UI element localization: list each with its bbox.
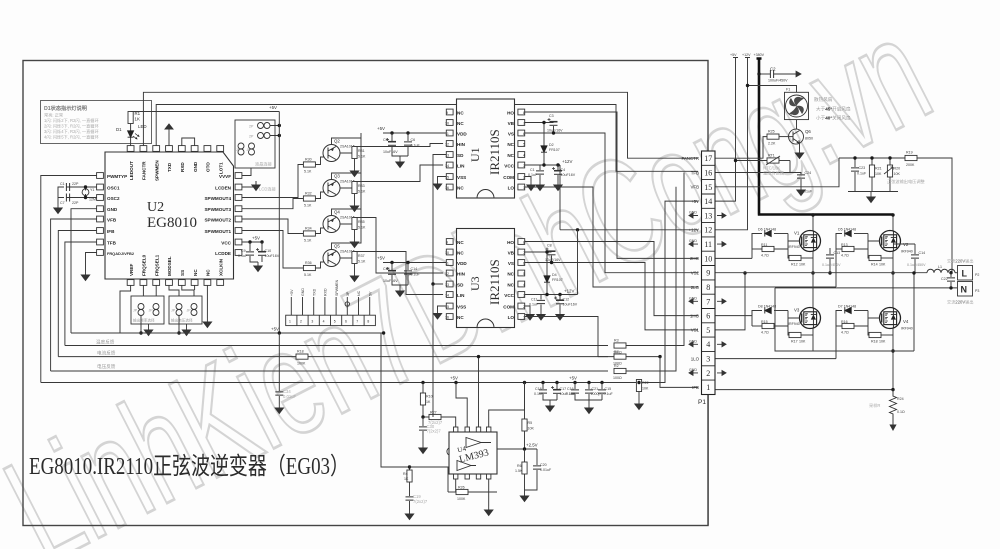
resistor R23 10K — [869, 156, 882, 191]
svg-text:C4: C4 — [561, 168, 566, 172]
svg-text:FR107: FR107 — [549, 148, 560, 152]
svg-text:SS: SS — [180, 270, 185, 276]
svg-text:11: 11 — [445, 132, 449, 136]
svg-text:5V: 5V — [368, 291, 372, 296]
capacitor C5 10uF/16V — [383, 133, 408, 156]
svg-text:JP: JP — [133, 309, 138, 313]
svg-text:+5V: +5V — [290, 289, 294, 296]
svg-text:SD: SD — [457, 153, 464, 158]
svg-text:5.1K: 5.1K — [358, 260, 366, 264]
svg-text:10K: 10K — [875, 172, 882, 176]
svg-text:+5V: +5V — [691, 199, 699, 204]
capacitor C10 10uF/16V — [254, 242, 280, 272]
svg-text:10K: 10K — [528, 427, 535, 431]
svg-text:10uF16V: 10uF16V — [563, 303, 578, 307]
wire SPWMOUT3 to R32 — [242, 199, 304, 209]
thermistor RT1 — [716, 154, 791, 177]
svg-text:8050: 8050 — [805, 137, 813, 141]
svg-text:13: 13 — [704, 211, 712, 220]
svg-text:R17: R17 — [791, 340, 798, 344]
fan note text — [814, 96, 851, 122]
wire SPWMOUT2 to R34 — [242, 219, 304, 234]
wire LM393 outputs — [432, 284, 434, 417]
svg-text:SPWMEN: SPWMEN — [335, 279, 339, 296]
svg-text:4.7Ω: 4.7Ω — [841, 331, 849, 335]
svg-text:3: 3 — [311, 320, 313, 324]
wire SS pin ground — [195, 285, 212, 327]
wire PWMTYP to +5V rail — [41, 176, 97, 383]
svg-text:NC: NC — [457, 315, 464, 320]
svg-text:C3: C3 — [549, 114, 554, 118]
svg-text:C13: C13 — [383, 267, 390, 271]
resistor R26 — [448, 467, 497, 516]
svg-text:R3: R3 — [614, 339, 619, 343]
wire U3 VS to P1 pin5 — [525, 261, 698, 330]
svg-text:Q6: Q6 — [805, 129, 811, 134]
jumper feet to +5V rail — [139, 316, 180, 335]
svg-text:+5V: +5V — [730, 53, 737, 57]
svg-text:V3: V3 — [794, 308, 800, 313]
capacitor C6 0.1uF — [396, 133, 421, 168]
svg-text:NC: NC — [457, 121, 464, 126]
+5V main rail — [41, 201, 698, 382]
svg-text:10K: 10K — [799, 340, 806, 344]
resistor R17 10K — [788, 326, 813, 344]
U2 bottom pins — [127, 254, 223, 285]
svg-text:2HO: 2HO — [690, 256, 700, 261]
TXD stub with up ground — [165, 124, 173, 146]
svg-text:100uF/450V: 100uF/450V — [768, 79, 788, 83]
svg-text:0.1uF: 0.1uF — [529, 303, 539, 307]
bridge gate feed wires — [716, 258, 837, 358]
svg-text:NC: NC — [457, 250, 464, 255]
+5V labels on rail — [421, 376, 577, 385]
svg-text:JP: JP — [149, 309, 154, 313]
capacitor C4 10uF/16V — [552, 165, 576, 191]
svg-text:13: 13 — [445, 283, 449, 287]
resistor R15 4.7 — [752, 311, 800, 335]
svg-text:HO: HO — [507, 240, 514, 245]
svg-text:+5V: +5V — [271, 327, 279, 332]
VS output line — [716, 272, 928, 274]
svg-text:C10: C10 — [265, 249, 272, 253]
svg-text:4.7Ω: 4.7Ω — [761, 254, 769, 258]
svg-text:6: 6 — [345, 320, 347, 324]
svg-text:R15: R15 — [761, 320, 768, 324]
svg-text:10K: 10K — [879, 263, 886, 267]
+5V feed wire over U2 top to LCD box — [131, 105, 280, 112]
resistor R33 — [340, 182, 366, 212]
svg-text:2P: 2P — [249, 135, 254, 139]
svg-text:电流反馈: 电流反馈 — [97, 350, 116, 357]
svg-text:10: 10 — [445, 251, 449, 255]
svg-text:LO: LO — [508, 185, 515, 190]
op-amp U3 IR2110S body — [457, 229, 515, 328]
resistor R18a 10K — [868, 326, 893, 344]
resistor R13 4.7 — [836, 234, 880, 258]
svg-text:OSC2: OSC2 — [107, 196, 120, 201]
output voltage adjust line — [716, 158, 953, 273]
header P4 program connector — [286, 279, 376, 325]
svg-text:C22: C22 — [941, 277, 948, 281]
diode D8 1N4148 — [752, 305, 788, 316]
bootstrap capacitor C3 — [525, 114, 563, 133]
terminal L P2 — [947, 258, 979, 281]
inductor L1 — [927, 265, 958, 273]
svg-text:Q5: Q5 — [334, 244, 340, 249]
comparator U4 LM393 body — [447, 432, 497, 474]
wire U3 VCC +12V node — [525, 289, 578, 297]
svg-text:IRF940: IRF940 — [788, 245, 800, 249]
svg-text:P3: P3 — [975, 289, 979, 293]
svg-text:8: 8 — [523, 240, 525, 244]
svg-text:D1: D1 — [116, 127, 122, 132]
svg-text:D2: D2 — [549, 143, 554, 147]
wire IFB P1 pin1 to current line — [660, 357, 698, 388]
svg-text:C7: C7 — [60, 201, 65, 205]
resistor R11 4.7 — [752, 234, 800, 258]
title text — [29, 453, 349, 480]
svg-text:+380V: +380V — [754, 53, 765, 57]
svg-text:NC: NC — [193, 269, 198, 276]
resistor R3 — [613, 173, 684, 355]
V3 drain — [812, 273, 814, 308]
svg-text:U1: U1 — [468, 147, 482, 162]
capacitor C30 — [419, 417, 442, 454]
svg-text:SPWMOUT4: SPWMOUT4 — [204, 196, 231, 201]
svg-text:10: 10 — [445, 121, 449, 125]
svg-text:+5V: +5V — [569, 376, 577, 381]
op-amp U1 IR2110S body — [457, 99, 515, 198]
svg-text:0.1Ω: 0.1Ω — [897, 410, 905, 414]
svg-text:8: 8 — [706, 283, 710, 292]
svg-text:TXD: TXD — [312, 288, 316, 296]
svg-text:0.1uF: 0.1uF — [534, 392, 544, 396]
capacitor C7 22P — [60, 194, 79, 206]
U1 +5V and caps C5 C6 — [377, 126, 446, 135]
svg-text:IRF940: IRF940 — [901, 327, 913, 331]
svg-text:NC: NC — [507, 271, 514, 276]
svg-text:HIN: HIN — [457, 271, 466, 276]
resistor R7 — [613, 350, 662, 366]
MOSFET V3 IRF940 — [788, 308, 821, 329]
svg-text:交流220V输出: 交流220V输出 — [947, 258, 974, 265]
resistor R37 — [340, 252, 366, 282]
svg-text:输出电压选择: 输出电压选择 — [171, 318, 193, 323]
wire Q4 emitter — [332, 173, 362, 216]
U1 left pins — [445, 109, 467, 190]
svg-text:EG8010.IR2110正弦波逆变器（EG03）: EG8010.IR2110正弦波逆变器（EG03） — [29, 453, 349, 480]
V2 drain to bus — [891, 213, 894, 230]
svg-text:16: 16 — [704, 168, 712, 177]
V4 source down — [891, 329, 894, 390]
svg-text:C16: C16 — [567, 387, 574, 391]
resistor R18 — [296, 350, 608, 366]
svg-text:10uF16V: 10uF16V — [561, 173, 576, 177]
svg-text:R19: R19 — [906, 151, 913, 155]
svg-text:P1: P1 — [698, 399, 706, 406]
svg-text:SPWMOUT3: SPWMOUT3 — [204, 207, 231, 212]
wire Q3 emitter — [332, 138, 362, 180]
capacitor C21 1000p — [585, 383, 601, 401]
svg-text:HO: HO — [507, 110, 514, 115]
svg-text:RT1: RT1 — [768, 154, 775, 158]
svg-text:+2.5V: +2.5V — [526, 443, 538, 448]
svg-text:GND: GND — [689, 339, 697, 343]
svg-text:Y1: Y1 — [90, 188, 94, 192]
svg-text:D4: D4 — [552, 273, 557, 277]
resistor R6 — [515, 449, 527, 490]
svg-text:R36: R36 — [305, 261, 312, 265]
wire VREF pin down — [120, 285, 131, 333]
svg-text:1K: 1K — [135, 117, 140, 122]
wires LCD box to +5V vertical — [270, 112, 281, 334]
svg-text:R16: R16 — [841, 320, 848, 324]
svg-text:C1: C1 — [60, 182, 65, 186]
RXD stub — [182, 138, 195, 146]
svg-text:VCC: VCC — [504, 163, 514, 168]
svg-text:1: 1 — [523, 186, 525, 190]
svg-text:1: 1 — [289, 320, 291, 324]
svg-text:10uF16V: 10uF16V — [383, 150, 398, 154]
svg-text:GND: GND — [689, 239, 697, 243]
wire U3 LO to P1 pin3 — [525, 317, 614, 357]
svg-text:R2: R2 — [614, 364, 619, 368]
svg-text:2: 2 — [523, 305, 525, 309]
crystal Y1 12M — [66, 185, 97, 201]
svg-text:R13: R13 — [841, 243, 848, 247]
diode D5 1N4148 — [836, 228, 868, 288]
node +5V supply — [716, 53, 739, 201]
svg-text:COM: COM — [503, 175, 514, 180]
svg-text:FANCTR: FANCTR — [681, 156, 699, 161]
capacitor C18 0.1uF — [534, 383, 557, 401]
svg-text:12: 12 — [704, 226, 712, 235]
svg-text:R26: R26 — [458, 486, 465, 490]
svg-text:10K: 10K — [642, 387, 649, 391]
svg-text:D5 1N4148: D5 1N4148 — [838, 228, 856, 232]
svg-text:8: 8 — [523, 111, 525, 115]
wire SPWMOUT4 to R30 — [242, 165, 304, 198]
+5V jumper rail — [71, 327, 385, 335]
svg-text:14: 14 — [704, 197, 712, 206]
svg-text:3: 3 — [523, 164, 525, 168]
svg-text:7(2x2)7: 7(2x2)7 — [413, 499, 428, 504]
LM393 bottom pins — [454, 474, 491, 479]
svg-text:VS: VS — [508, 261, 514, 266]
svg-text:14: 14 — [445, 164, 449, 168]
svg-text:电压反馈: 电压反馈 — [97, 363, 116, 370]
svg-text:C1: C1 — [530, 168, 535, 172]
diode D7 1N4148 — [836, 305, 868, 359]
svg-text:C20: C20 — [540, 463, 547, 467]
capacitor C14 0.1uF — [396, 263, 421, 297]
svg-text:C14: C14 — [919, 251, 926, 255]
svg-text:R25: R25 — [768, 130, 775, 134]
svg-text:7: 7 — [356, 320, 358, 324]
svg-text:V1: V1 — [794, 231, 800, 236]
svg-text:12M: 12M — [89, 198, 96, 202]
svg-text:VS1: VS1 — [691, 328, 700, 333]
transistor Q2 2SA1015 — [323, 139, 355, 162]
svg-text:100Ω: 100Ω — [613, 376, 622, 380]
LM393 top pins — [454, 427, 491, 432]
svg-text:4.7Ω: 4.7Ω — [761, 331, 769, 335]
svg-text:1HO: 1HO — [690, 313, 700, 318]
svg-text:R34: R34 — [305, 227, 312, 231]
capacitor C19 — [405, 494, 428, 520]
svg-text:EG8010: EG8010 — [147, 215, 197, 231]
svg-text:15: 15 — [445, 175, 449, 179]
svg-text:C21: C21 — [592, 387, 599, 391]
svg-text:VCC: VCC — [221, 240, 231, 245]
svg-text:R14: R14 — [871, 263, 878, 267]
U2 left pins — [97, 173, 135, 256]
wire U3 VSS ground — [433, 306, 446, 319]
svg-text:5.1K: 5.1K — [358, 226, 366, 230]
svg-text:VB: VB — [508, 121, 515, 126]
svg-text:17: 17 — [704, 154, 712, 163]
svg-text:大于45°开启风扇: 大于45°开启风扇 — [816, 106, 851, 113]
resistor R34 — [303, 227, 324, 243]
svg-text:VSS: VSS — [457, 304, 466, 309]
P1 GND arrows left — [689, 211, 698, 376]
svg-text:+12V: +12V — [564, 289, 574, 294]
V3 source down — [812, 329, 814, 352]
svg-text:D1状态指示灯说明: D1状态指示灯说明 — [44, 104, 87, 112]
svg-text:0.01uF: 0.01uF — [801, 190, 813, 194]
svg-text:R30: R30 — [305, 158, 312, 162]
+12V distribution — [560, 165, 698, 295]
node +12V supply — [716, 53, 752, 230]
wire IFB to feedback line — [58, 231, 96, 357]
P1 left labels — [681, 156, 699, 390]
svg-text:P2: P2 — [975, 273, 979, 277]
svg-text:NC: NC — [457, 110, 464, 115]
wire U1 SD down to protection — [431, 155, 446, 286]
svg-text:5: 5 — [523, 142, 525, 146]
svg-text:FRQSEL1: FRQSEL1 — [154, 254, 159, 276]
svg-text:C8: C8 — [547, 244, 552, 248]
resistor R19 200K — [905, 151, 917, 168]
wire Q5 emitter — [332, 209, 362, 250]
svg-text:3: 3 — [523, 293, 525, 297]
svg-text:12: 12 — [445, 142, 449, 146]
svg-text:0.1uF: 0.1uF — [857, 172, 867, 176]
svg-text:C9: C9 — [241, 249, 246, 253]
svg-text:6: 6 — [706, 312, 710, 321]
IFB line to R24 — [716, 388, 895, 391]
wire sense to comparator from current line — [477, 355, 480, 427]
wire U3 HO to P1 pin6 — [525, 242, 698, 316]
wire GND pin to rail — [71, 209, 97, 333]
wire +5V into chip pin — [456, 383, 467, 428]
svg-text:0.1uF: 0.1uF — [604, 392, 614, 396]
voltage feedback line — [51, 363, 608, 371]
resistor R25 — [716, 130, 794, 159]
svg-text:3: 3 — [706, 355, 710, 364]
svg-text:LO: LO — [508, 315, 515, 320]
capacitor C23 0.1uF — [851, 156, 867, 191]
diode D6 1N4148 — [752, 228, 788, 259]
capacitor C20 0.01uF — [520, 449, 552, 502]
svg-text:200K: 200K — [906, 163, 915, 167]
svg-text:VS: VS — [508, 131, 514, 136]
svg-text:VFB: VFB — [107, 217, 117, 222]
svg-text:100K: 100K — [457, 497, 466, 501]
svg-text:7: 7 — [706, 297, 710, 306]
capacitor C13 1uF — [383, 263, 408, 286]
svg-text:4: 4 — [323, 320, 325, 324]
MOSFET V1 IRF940 — [788, 231, 821, 252]
svg-text:0.01uF: 0.01uF — [540, 468, 552, 472]
VS1 wire — [716, 271, 747, 330]
wire U1 LO to P1 pin8 — [525, 187, 698, 287]
U1 right pins — [503, 109, 525, 190]
svg-text:C13: C13 — [834, 251, 841, 255]
svg-text:IFB: IFB — [692, 385, 699, 390]
svg-text:TXD: TXD — [167, 162, 172, 172]
MOSFET V2 IRF940 — [880, 231, 913, 254]
ground stubs below jumper boxes — [144, 324, 152, 336]
svg-text:3P: 3P — [346, 291, 350, 296]
svg-text:SPWMOUT2: SPWMOUT2 — [204, 217, 231, 222]
svg-text:IR2110S: IR2110S — [487, 129, 502, 175]
svg-text:D8 1N4148: D8 1N4148 — [758, 305, 776, 309]
svg-text:IFB: IFB — [107, 229, 115, 234]
svg-text:R24: R24 — [897, 397, 904, 401]
svg-text:5.1K: 5.1K — [304, 204, 312, 208]
svg-text:9: 9 — [446, 240, 448, 244]
jumper box voltage select — [169, 296, 202, 324]
svg-text:LIN: LIN — [457, 293, 465, 298]
svg-text:0.1uF: 0.1uF — [411, 273, 421, 277]
svg-text:2LO: 2LO — [691, 285, 700, 290]
capacitor C1 22P — [60, 182, 79, 191]
svg-text:GND: GND — [689, 211, 697, 215]
svg-text:R18: R18 — [871, 340, 878, 344]
jumper box frequency select — [131, 296, 164, 324]
svg-text:16: 16 — [445, 186, 449, 190]
svg-text:VSS: VSS — [457, 175, 466, 180]
svg-text:GND: GND — [301, 288, 305, 296]
svg-text:F1: F1 — [786, 88, 790, 92]
svg-text:C23: C23 — [859, 166, 866, 170]
wire TFB to feedback line — [65, 242, 97, 346]
N return line — [775, 288, 957, 351]
U3 left pins — [445, 239, 467, 320]
svg-text:U3: U3 — [468, 276, 482, 291]
svg-text:NC: NC — [357, 290, 361, 296]
MOSFET V4 IRF940 — [880, 308, 913, 331]
svg-text:10: 10 — [704, 254, 712, 263]
svg-text:FRQSEL0: FRQSEL0 — [142, 254, 147, 276]
svg-text:C5: C5 — [383, 138, 388, 142]
svg-text:+12V: +12V — [689, 228, 699, 233]
capacitor C2 100uF/450V — [757, 67, 801, 83]
svg-text:VB: VB — [508, 250, 515, 255]
capacitor C11a 0.1uF — [528, 165, 544, 191]
svg-text:R37: R37 — [358, 254, 365, 258]
capacitor C13a snubber — [822, 248, 841, 275]
svg-text:4闪: 闪烁5下, R2闪, 一直循环: 4闪: 闪烁5下, R2闪, 一直循环 — [44, 134, 99, 141]
wire chip pin8 to +5V rail — [489, 383, 525, 428]
wire U1 HO to P1 pin10 — [525, 112, 698, 258]
U3 +5V and caps C13b C14b — [377, 256, 446, 265]
wire SPWMOUT1 to R36 — [242, 231, 304, 269]
resistor R22 — [635, 379, 649, 410]
resistor R2 — [613, 187, 676, 380]
